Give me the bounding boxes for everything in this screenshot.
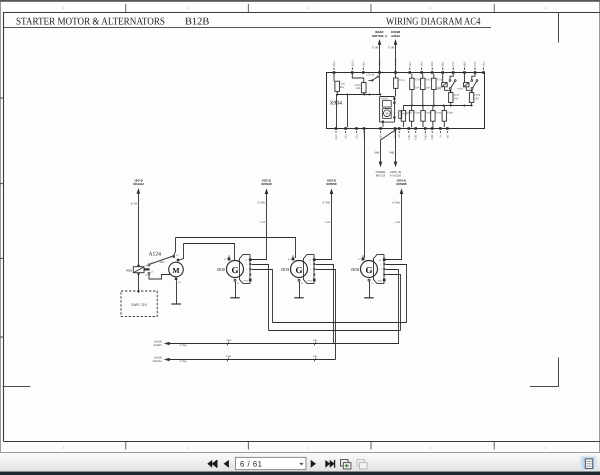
toolbar background bbox=[0, 453, 600, 471]
G04 B+ terminal bbox=[358, 255, 364, 261]
fuse F209 bbox=[352, 74, 366, 95]
feeder wire up-arrow at x=395.5 bbox=[388, 30, 400, 72]
frame zone numerals bbox=[63, 6, 547, 450]
wire pin4 column inside box bbox=[379, 74, 381, 95]
left window edge bbox=[0, 2, 1, 452]
wire K65 to SMS box bbox=[138, 273, 140, 291]
X904 bottom pin labels bbox=[335, 134, 449, 140]
G02 B+ terminal bbox=[224, 255, 230, 261]
relay contact K201 bbox=[436, 74, 456, 91]
page number input box bbox=[236, 457, 307, 469]
motor terminal 30 top bbox=[172, 238, 179, 258]
header separator line bbox=[4, 27, 492, 29]
fuse F216 bbox=[432, 74, 443, 106]
wire A200J to bottom pin bbox=[382, 123, 384, 127]
X904 bottom pin stubs bbox=[336, 131, 447, 133]
harness left-arrow wire y=359.5 bbox=[152, 355, 335, 363]
fuse box X904 outline bbox=[327, 73, 485, 129]
harness left-arrow wire y=343.5 bbox=[154, 339, 399, 347]
fuse F219 small bbox=[399, 111, 409, 119]
alternator G02 circle bbox=[217, 261, 243, 278]
diagonal wire from pin to arrow column bbox=[381, 129, 397, 140]
next view icon disabled bbox=[357, 460, 367, 469]
feeder wire up-arrow at x=379.5 bbox=[372, 30, 387, 72]
wire G03 pin2 down bbox=[316, 265, 334, 345]
fuse F210 bbox=[334, 74, 346, 95]
G04 connector pins bbox=[383, 258, 386, 281]
solenoid contact A124 bbox=[144, 256, 172, 274]
fuse F207 bbox=[421, 74, 432, 106]
bus wire motor to G02 bbox=[184, 244, 235, 261]
internal bus wire right bbox=[403, 105, 472, 107]
last page button bbox=[325, 460, 335, 468]
G02 connector housing bbox=[240, 255, 251, 284]
G03 signal up-arrow bbox=[316, 178, 337, 259]
X904 top pin stubs bbox=[334, 68, 484, 71]
G04 connector pin labels bbox=[378, 259, 383, 282]
green arrow on previous view icon bbox=[345, 464, 349, 467]
fuse F285 bbox=[421, 106, 432, 128]
toolbar separator line bbox=[0, 452, 600, 453]
first page button bbox=[207, 460, 217, 468]
previous view icon bbox=[341, 460, 351, 469]
frame zone ticks bottom bbox=[126, 442, 494, 450]
fuse F281 bbox=[401, 106, 412, 128]
bus wire B horizontal bbox=[273, 322, 407, 324]
G02 connector pins bbox=[249, 258, 252, 281]
G03 connector housing bbox=[304, 255, 315, 284]
G04 B- ground bbox=[364, 279, 373, 298]
bus wire A horizontal bbox=[269, 330, 401, 332]
G03 B- ground bbox=[294, 279, 303, 298]
right window edge bbox=[599, 2, 600, 452]
previous page button bbox=[224, 460, 229, 468]
alternator G03 circle bbox=[281, 261, 307, 278]
fuse F288 bbox=[442, 106, 453, 128]
wire G02 pin3 to bus B bbox=[252, 270, 273, 323]
junction dots on right bus bbox=[411, 105, 473, 107]
wire G04 pin4 down bbox=[385, 275, 400, 331]
fuse F272 bbox=[449, 90, 460, 106]
junction dot at SMS box bbox=[137, 290, 139, 292]
signal up-arrow K65 column bbox=[131, 178, 144, 266]
relay output wires to fuses bbox=[450, 89, 472, 92]
fuse F280 bbox=[409, 106, 420, 128]
G02 B- ground bbox=[230, 279, 239, 298]
dashed box SMS D9 bbox=[121, 291, 157, 317]
frame zone ticks top bbox=[126, 4, 494, 13]
G03 connector pins bbox=[313, 258, 316, 281]
G03 B+ terminal bbox=[288, 255, 294, 261]
next page button bbox=[311, 460, 316, 468]
bus wire motor to G03 bbox=[176, 238, 296, 259]
down-arrow feeder at x=395.5 bbox=[390, 129, 402, 177]
junction dots on left bus bbox=[337, 94, 382, 96]
wire A124 lower loop to motor bbox=[149, 274, 171, 279]
wire G02 pin2 to bus A bbox=[252, 265, 269, 331]
right margin mark upper bbox=[558, 13, 560, 43]
top window edge strip bbox=[0, 0, 600, 2]
X904 top terminal pins bbox=[333, 71, 485, 74]
G02 connector pin labels bbox=[244, 259, 249, 282]
wire G03 pin3 down bbox=[316, 270, 336, 360]
relay module A200J box bbox=[380, 97, 395, 123]
fuse F284 bbox=[431, 106, 442, 128]
fuse F273 bbox=[469, 90, 480, 106]
down-arrow feeder at x=380.5 bbox=[375, 140, 386, 177]
G02 signal up-arrow bbox=[252, 178, 272, 259]
relay contact K202 bbox=[457, 74, 477, 91]
G04 signal up-arrow bbox=[386, 178, 407, 259]
fuse F206 bbox=[410, 74, 421, 106]
alternator G04 circle bbox=[351, 261, 377, 278]
bottom dark strip bbox=[0, 472, 600, 475]
contact L2R_M bbox=[366, 74, 379, 82]
motor terminal top-right bbox=[177, 244, 184, 262]
motor bottom terminal and ground bbox=[171, 278, 181, 304]
G03 connector pin labels bbox=[308, 259, 313, 282]
fuse F214 bbox=[394, 74, 406, 97]
wire G04 pin2 down bbox=[385, 265, 406, 323]
relay K65 bbox=[126, 264, 149, 277]
internal bus wire left bbox=[336, 94, 380, 96]
right margin mark lower corner bbox=[530, 358, 559, 387]
left margin ticks bbox=[0, 98, 4, 337]
A200J pins bbox=[382, 98, 396, 123]
wire bus to bottom-left pins bbox=[337, 95, 348, 128]
left margin fold mark bbox=[3, 386, 31, 388]
G04 connector housing bbox=[374, 255, 385, 284]
X904 bottom terminal pins bbox=[335, 127, 449, 130]
toolbar bottom edge bbox=[0, 471, 600, 472]
X904 top pin labels bbox=[333, 59, 486, 67]
sidebar panel icon right bbox=[580, 456, 597, 471]
starter motor M circle bbox=[169, 262, 184, 277]
wire G04 pin3 down bbox=[385, 270, 398, 345]
wire X904 to G04 B+ long vertical bbox=[364, 129, 366, 258]
